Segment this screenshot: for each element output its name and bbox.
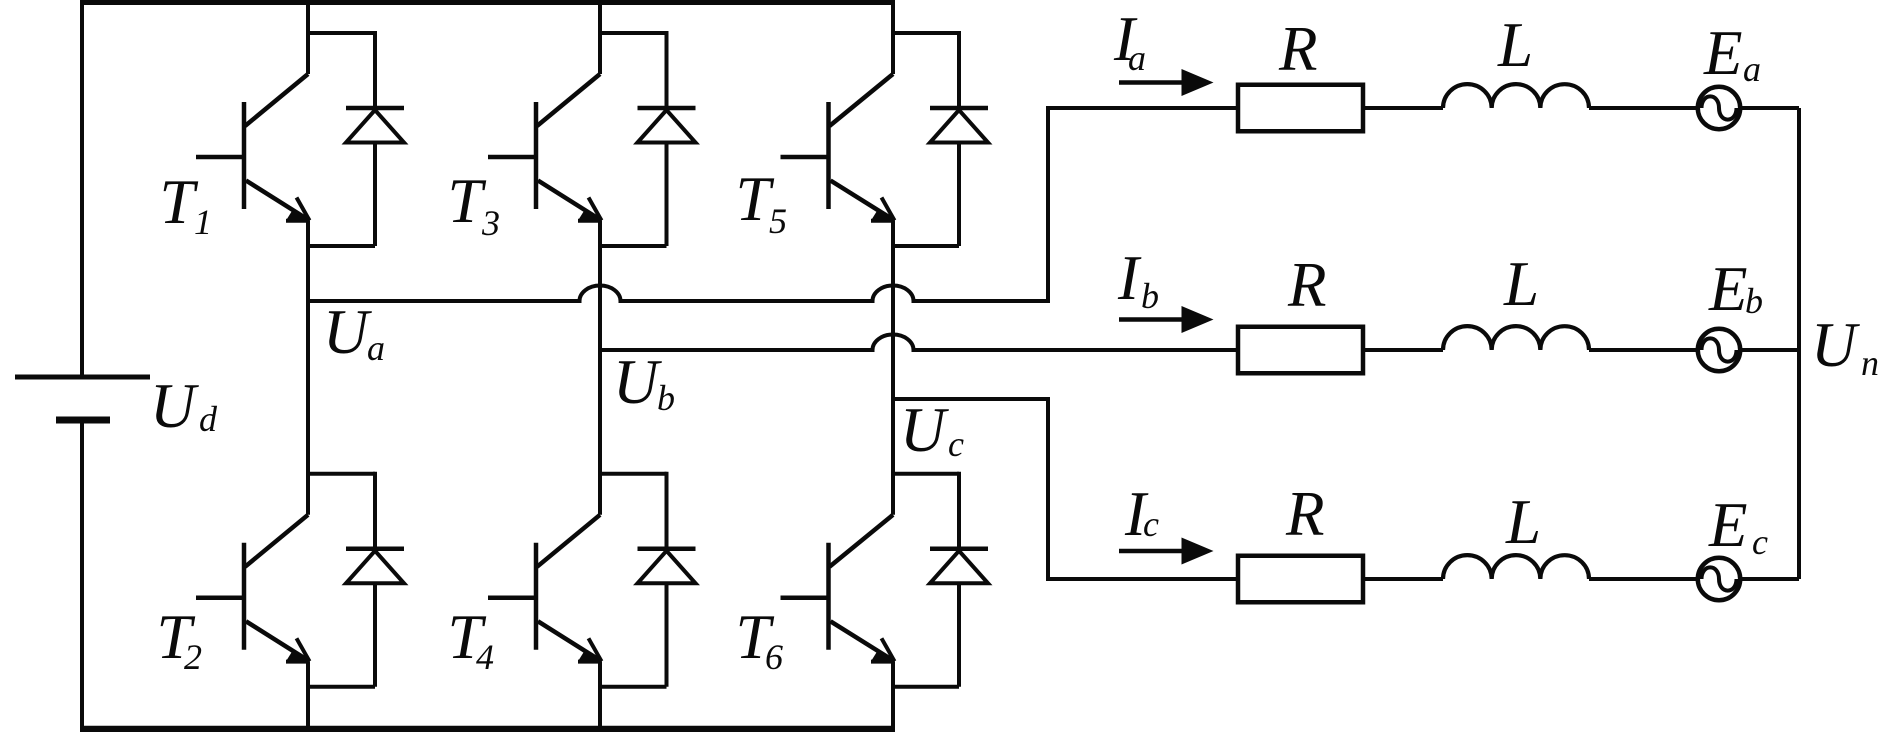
label E_c xyxy=(1708,490,1768,562)
label T1 xyxy=(160,167,213,242)
wire: leg a from T2 emitter to -bus xyxy=(306,661,310,729)
label R (phase b) xyxy=(1287,250,1326,320)
wire: leg b from T4 emitter to -bus xyxy=(598,661,602,729)
wire: leg a from +bus to T1 collector xyxy=(306,0,310,74)
wire: T6 collector-diode stub xyxy=(893,472,959,476)
label I_a xyxy=(1113,4,1146,78)
svg-text:T: T xyxy=(448,166,487,236)
wire: T5 collector-diode stub xyxy=(893,31,959,35)
resistor R (phase b) xyxy=(1238,327,1363,374)
wire: L to E_c xyxy=(1589,577,1698,581)
wire: E_b to neutral bus xyxy=(1740,348,1799,352)
transistor T2 xyxy=(196,515,310,662)
freewheel diode D5 xyxy=(930,31,988,246)
svg-text:b: b xyxy=(1745,281,1763,321)
battery U_d negative plate xyxy=(56,417,110,424)
wire: T4 collector-diode stub xyxy=(600,472,667,476)
svg-text:3: 3 xyxy=(481,203,500,243)
svg-text:R: R xyxy=(1285,479,1324,549)
svg-text:a: a xyxy=(1743,49,1761,89)
back-EMF source E_c xyxy=(1698,558,1740,600)
wire: leg c from +bus to T5 collector xyxy=(891,0,895,74)
freewheel diode D1 xyxy=(346,31,404,246)
wire: phase b output with hop over leg c xyxy=(600,335,1240,351)
svg-text:U: U xyxy=(900,395,949,465)
wire: phase a output with hops over legs b and c xyxy=(308,108,1240,301)
wire: T1 collector-diode stub xyxy=(308,31,375,35)
svg-text:T: T xyxy=(160,167,199,237)
svg-text:1: 1 xyxy=(194,202,212,242)
current arrow I_a xyxy=(1119,69,1214,96)
label T6 xyxy=(736,602,784,677)
svg-text:6: 6 xyxy=(765,637,783,677)
svg-text:d: d xyxy=(199,399,218,439)
svg-text:b: b xyxy=(1141,276,1159,316)
wire: T4 emitter-diode stub xyxy=(600,685,667,689)
wire: L to E_a xyxy=(1589,106,1698,110)
svg-text:E: E xyxy=(1708,490,1747,560)
wire: T3 collector-diode stub xyxy=(600,31,667,35)
svg-text:a: a xyxy=(367,328,385,368)
svg-text:c: c xyxy=(1752,522,1768,562)
node U_c label xyxy=(900,395,964,465)
svg-text:R: R xyxy=(1287,250,1326,320)
freewheel diode D4 xyxy=(638,472,696,687)
current arrow I_b xyxy=(1119,306,1214,333)
wire: leg a midpoint (phase a node) xyxy=(306,221,310,515)
svg-text:U: U xyxy=(150,371,199,441)
svg-text:I: I xyxy=(1117,243,1142,313)
label R (phase c) xyxy=(1285,479,1324,549)
wire: phase c output xyxy=(893,399,1240,579)
wire: T1 emitter-diode stub xyxy=(308,244,375,248)
label R (phase a) xyxy=(1278,14,1317,84)
svg-text:c: c xyxy=(948,424,964,464)
label T2 xyxy=(157,602,203,677)
label L (phase a) xyxy=(1497,10,1533,80)
wire: E_c to neutral bus xyxy=(1740,577,1799,581)
battery U_d positive plate xyxy=(15,375,150,380)
transistor T6 xyxy=(781,515,895,662)
label E_b xyxy=(1708,254,1763,324)
label T4 xyxy=(448,602,495,677)
inductor L (phase a) xyxy=(1443,84,1589,108)
wire: battery negative lead xyxy=(80,420,84,729)
resistor R (phase c) xyxy=(1238,556,1363,603)
freewheel diode D3 xyxy=(638,31,696,246)
wire: L to E_b xyxy=(1589,348,1698,352)
svg-text:L: L xyxy=(1503,249,1539,319)
svg-text:n: n xyxy=(1861,343,1879,383)
label I_b xyxy=(1117,243,1159,316)
wire: T6 emitter-diode stub xyxy=(893,685,959,689)
svg-text:U: U xyxy=(1811,310,1860,380)
wire: leg b midpoint (phase b node) xyxy=(598,221,602,515)
svg-text:L: L xyxy=(1505,487,1541,557)
svg-text:4: 4 xyxy=(476,637,494,677)
wire: T2 collector-diode stub xyxy=(308,472,375,476)
inductor L (phase c) xyxy=(1443,555,1589,579)
back-EMF source E_a xyxy=(1698,87,1740,129)
wire: T2 emitter-diode stub xyxy=(308,685,375,689)
freewheel diode D6 xyxy=(930,472,988,687)
wire: leg b from +bus to T3 collector xyxy=(598,0,602,74)
transistor T5 xyxy=(781,74,895,221)
svg-text:R: R xyxy=(1278,14,1317,84)
svg-text:L: L xyxy=(1497,10,1533,80)
svg-text:U: U xyxy=(323,297,372,367)
wire: R to L (phase b) xyxy=(1363,348,1443,352)
wire: positive DC bus (top rail) xyxy=(80,0,895,5)
svg-text:2: 2 xyxy=(184,637,202,677)
wire: leg c from T6 emitter to -bus xyxy=(891,661,895,729)
svg-text:E: E xyxy=(1703,18,1742,88)
node U_n label xyxy=(1811,310,1879,383)
label I_c xyxy=(1124,479,1159,549)
wire: neutral bus xyxy=(1797,108,1801,579)
transistor T3 xyxy=(488,74,602,221)
inductor L (phase b) xyxy=(1443,326,1589,350)
transistor T4 xyxy=(488,515,602,662)
svg-text:5: 5 xyxy=(769,201,787,241)
label L (phase b) xyxy=(1503,249,1539,319)
current arrow I_c xyxy=(1119,538,1214,565)
transistor T1 xyxy=(196,74,310,221)
freewheel diode D2 xyxy=(346,472,404,687)
node U_b label xyxy=(613,347,675,418)
wire: battery positive lead xyxy=(80,0,84,375)
label T3 xyxy=(448,166,501,243)
wire: R to L (phase c) xyxy=(1363,577,1443,581)
label U_d xyxy=(150,371,218,441)
svg-text:b: b xyxy=(657,378,675,418)
back-EMF source E_b xyxy=(1698,329,1740,371)
wire: T5 emitter-diode stub xyxy=(893,244,959,248)
label T5 xyxy=(736,164,788,241)
svg-text:E: E xyxy=(1708,254,1747,324)
wire: T3 emitter-diode stub xyxy=(600,244,667,248)
wire: R to L (phase a) xyxy=(1363,106,1443,110)
label L (phase c) xyxy=(1505,487,1541,557)
svg-text:c: c xyxy=(1143,504,1159,544)
svg-text:U: U xyxy=(613,347,662,417)
wire: negative DC bus (bottom rail) xyxy=(80,726,895,732)
wire: leg c midpoint (phase c node) xyxy=(891,221,895,515)
resistor R (phase a) xyxy=(1238,85,1363,132)
label E_a xyxy=(1703,18,1761,89)
wire: E_a to neutral bus xyxy=(1740,106,1799,110)
node U_a label xyxy=(323,297,385,368)
svg-text:a: a xyxy=(1128,38,1146,78)
